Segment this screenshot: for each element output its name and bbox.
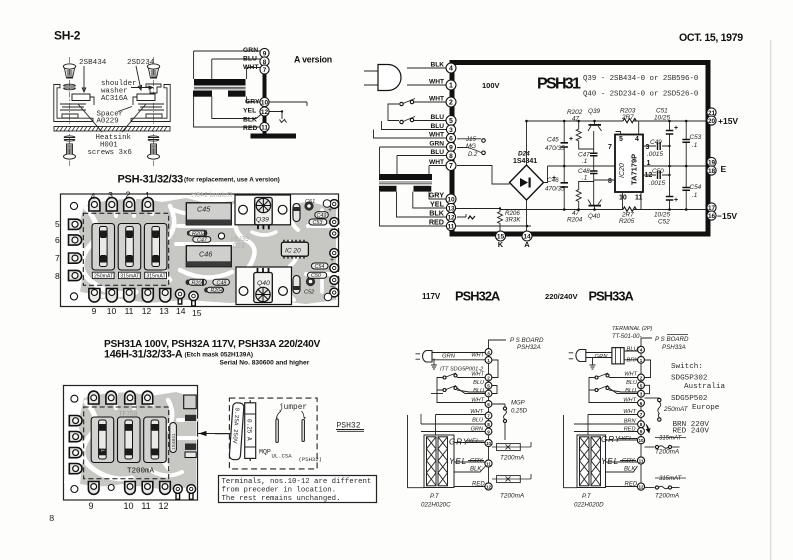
- svg-text:RED: RED: [429, 218, 444, 227]
- svg-text:T200mA: T200mA: [500, 493, 524, 500]
- svg-text:315mAT: 315mAT: [120, 273, 140, 279]
- svg-text:+: +: [552, 175, 556, 182]
- svg-text:4: 4: [635, 136, 639, 143]
- svg-text:6: 6: [640, 401, 643, 406]
- svg-text:8: 8: [608, 178, 612, 185]
- svg-text:P.T: P.T: [430, 493, 440, 500]
- svg-text:C51: C51: [305, 199, 315, 205]
- svg-text:D.2: D.2: [468, 152, 478, 158]
- svg-text:10: 10: [123, 501, 133, 511]
- svg-text:8: 8: [449, 153, 453, 160]
- svg-text:SH-2: SH-2: [54, 29, 81, 43]
- svg-text:BLU: BLU: [430, 123, 444, 130]
- svg-text:7: 7: [608, 144, 612, 151]
- svg-text:Australia: Australia: [684, 383, 725, 391]
- svg-text:11: 11: [261, 125, 268, 132]
- svg-text:146H-31/32/33-A: 146H-31/32/33-A: [104, 349, 183, 361]
- svg-text:K: K: [498, 240, 504, 249]
- svg-text:GRN: GRN: [429, 141, 444, 148]
- svg-text:Europe: Europe: [692, 404, 720, 412]
- svg-text:E: E: [721, 164, 727, 174]
- svg-text:(PSH32): (PSH32): [299, 456, 323, 463]
- svg-text:R202: R202: [192, 231, 205, 237]
- svg-text:6: 6: [487, 402, 490, 407]
- svg-text:Q39 - 2SB434-0 or 2SB596-0: Q39 - 2SB434-0 or 2SB596-0: [583, 75, 698, 83]
- svg-text:IC 20: IC 20: [285, 248, 301, 255]
- svg-text:C53: C53: [690, 134, 702, 141]
- svg-text:470/35: 470/35: [545, 145, 565, 152]
- svg-text:BLU: BLU: [472, 418, 484, 424]
- svg-text:11: 11: [486, 462, 491, 467]
- svg-text:9: 9: [88, 501, 93, 511]
- svg-text:P S BOARD: P S BOARD: [655, 336, 689, 343]
- svg-text:BLU: BLU: [625, 388, 637, 394]
- svg-text:GRN: GRN: [243, 47, 258, 54]
- svg-text:C45: C45: [547, 137, 559, 144]
- svg-text:TERMINAL (2P): TERMINAL (2P): [612, 326, 652, 332]
- svg-text:C49: C49: [650, 139, 662, 146]
- svg-text:R204: R204: [567, 217, 583, 224]
- svg-text:11: 11: [448, 224, 455, 231]
- svg-text:BLK: BLK: [430, 62, 444, 69]
- svg-text:T200mA: T200mA: [127, 468, 155, 476]
- svg-text:315mAT: 315mAT: [659, 436, 683, 442]
- svg-text:jumper: jumper: [279, 404, 307, 412]
- svg-text:C47: C47: [197, 238, 208, 244]
- svg-text:YEL: YEL: [601, 457, 619, 466]
- svg-text:PSH33A: PSH33A: [662, 344, 686, 351]
- svg-text:Switch:: Switch:: [671, 363, 703, 371]
- svg-text:T200mA: T200mA: [500, 455, 524, 462]
- svg-text:10/25: 10/25: [654, 212, 670, 219]
- svg-text:7: 7: [449, 163, 453, 170]
- svg-text:BLU: BLU: [626, 380, 638, 386]
- svg-text:Terminals, nos.10-12 are diffe: Terminals, nos.10-12 are different: [222, 478, 372, 486]
- svg-text:R205: R205: [619, 218, 635, 225]
- svg-text:C53: C53: [313, 220, 323, 226]
- svg-text:.1: .1: [692, 192, 698, 199]
- svg-text:+: +: [569, 136, 573, 143]
- svg-text:7: 7: [55, 253, 60, 263]
- svg-text:1: 1: [640, 358, 643, 363]
- svg-text:+: +: [328, 207, 332, 214]
- svg-text:12: 12: [142, 306, 152, 316]
- svg-text:3: 3: [640, 392, 643, 397]
- svg-text:3: 3: [487, 392, 490, 397]
- svg-text:(for replacement, use A versio: (for replacement, use A version): [184, 177, 280, 184]
- svg-text:.1: .1: [582, 175, 588, 182]
- svg-text:+15V: +15V: [718, 116, 738, 126]
- svg-text:WHT: WHT: [429, 79, 444, 86]
- svg-text:BLU: BLU: [430, 149, 444, 156]
- svg-text:RED 240V: RED 240V: [673, 428, 710, 436]
- svg-text:10: 10: [486, 441, 492, 446]
- svg-text:1: 1: [647, 160, 651, 167]
- svg-text:8: 8: [640, 422, 643, 427]
- svg-text:−15V: −15V: [717, 211, 737, 221]
- svg-text:12: 12: [486, 485, 492, 490]
- svg-text:YEL: YEL: [430, 200, 445, 209]
- svg-text:RED: RED: [243, 125, 257, 132]
- svg-text:1S4841: 1S4841: [171, 433, 177, 450]
- svg-text:Q40 - 2SD234-0 or 2SD526-0: Q40 - 2SD234-0 or 2SD526-0: [583, 91, 698, 99]
- svg-text:7: 7: [263, 67, 267, 74]
- svg-text:IC20: IC20: [619, 163, 626, 178]
- svg-text:5: 5: [619, 136, 623, 143]
- svg-text:P S BOARD: P S BOARD: [510, 337, 544, 344]
- svg-text:5: 5: [487, 384, 490, 389]
- svg-text:T200mA: T200mA: [655, 493, 679, 500]
- svg-text:WHT: WHT: [429, 96, 444, 103]
- svg-text:4: 4: [449, 66, 453, 73]
- svg-text:100V: 100V: [482, 81, 500, 90]
- svg-text:WHT: WHT: [471, 372, 484, 378]
- svg-text:.1: .1: [692, 142, 698, 149]
- svg-text:SDG5P502: SDG5P502: [671, 395, 708, 403]
- svg-text:9: 9: [92, 306, 97, 316]
- svg-text:12: 12: [447, 215, 455, 222]
- svg-text:T200mA: T200mA: [101, 434, 106, 452]
- svg-text:GRY: GRY: [622, 459, 636, 465]
- svg-text:C52: C52: [304, 290, 315, 296]
- svg-text:2: 2: [640, 376, 643, 381]
- svg-text:D24: D24: [518, 151, 530, 158]
- svg-text:GRN: GRN: [442, 354, 456, 360]
- svg-text:Q40: Q40: [257, 280, 270, 287]
- svg-text:GRY: GRY: [470, 459, 484, 465]
- svg-text:11: 11: [141, 501, 150, 511]
- svg-text:14: 14: [176, 306, 186, 316]
- svg-text:WHT: WHT: [624, 372, 637, 378]
- svg-text:315mAT: 315mAT: [146, 273, 166, 279]
- svg-text:YEL: YEL: [468, 439, 479, 445]
- svg-text:1: 1: [487, 358, 490, 363]
- svg-text:+: +: [674, 125, 678, 132]
- svg-text:PSH32A: PSH32A: [517, 344, 541, 351]
- svg-text:6: 6: [449, 136, 453, 143]
- svg-text:4: 4: [640, 348, 643, 353]
- svg-text:A version: A version: [294, 55, 332, 65]
- svg-text:9: 9: [640, 429, 643, 434]
- svg-text:T200mA: T200mA: [655, 449, 679, 456]
- svg-text:C54: C54: [315, 264, 325, 270]
- svg-text:2: 2: [487, 376, 490, 381]
- svg-text:7: 7: [487, 414, 490, 419]
- svg-text:+: +: [330, 257, 334, 264]
- svg-text:AC316A: AC316A: [101, 95, 128, 103]
- svg-text:.1: .1: [582, 158, 588, 165]
- svg-text:4: 4: [91, 191, 96, 201]
- svg-text:3R3K: 3R3K: [505, 217, 521, 224]
- svg-text:3: 3: [646, 144, 650, 151]
- svg-text:022H020D: 022H020D: [574, 502, 604, 509]
- svg-text:WHT: WHT: [623, 398, 636, 404]
- svg-text:C50: C50: [311, 273, 321, 279]
- svg-text:BLU: BLU: [473, 380, 485, 386]
- svg-text:PSH31: PSH31: [537, 76, 581, 93]
- svg-text:3: 3: [108, 190, 113, 200]
- svg-text:6: 6: [55, 235, 60, 245]
- svg-text:20: 20: [708, 118, 716, 125]
- svg-text:+: +: [674, 197, 678, 204]
- svg-text:SDG5P302: SDG5P302: [671, 375, 708, 383]
- svg-text:YEL: YEL: [243, 108, 256, 115]
- svg-text:MQP: MQP: [259, 449, 271, 456]
- svg-text:TA7179P: TA7179P: [630, 154, 639, 185]
- svg-text:UL.CSA: UL.CSA: [272, 453, 293, 460]
- svg-text:BLU: BLU: [430, 114, 444, 121]
- svg-text:7: 7: [640, 412, 643, 417]
- svg-text:(Etch mask 052H139A): (Etch mask 052H139A): [185, 352, 254, 359]
- svg-text:Q39: Q39: [256, 217, 269, 224]
- svg-text:C54: C54: [690, 184, 702, 191]
- svg-text:YEL: YEL: [621, 437, 632, 443]
- svg-text:12: 12: [261, 109, 269, 116]
- svg-text:5: 5: [449, 118, 453, 125]
- svg-text:BLU: BLU: [627, 347, 639, 353]
- svg-text:2R7: 2R7: [621, 114, 634, 121]
- svg-text:P.T: P.T: [582, 493, 592, 500]
- svg-text:10: 10: [261, 100, 269, 107]
- svg-text:GRY: GRY: [449, 438, 469, 447]
- svg-text:13: 13: [447, 206, 455, 213]
- svg-text:1S4841: 1S4841: [513, 158, 537, 165]
- svg-text:−: −: [330, 282, 335, 291]
- svg-text:HU39: HU39: [231, 236, 249, 243]
- svg-text:GRN: GRN: [595, 354, 609, 360]
- svg-text:1: 1: [449, 83, 453, 90]
- svg-text:.0015: .0015: [647, 151, 663, 158]
- svg-text:5: 5: [55, 219, 60, 229]
- svg-text:BLU: BLU: [473, 388, 485, 394]
- svg-text:9: 9: [487, 430, 490, 435]
- svg-text:MGP: MGP: [511, 401, 525, 407]
- svg-text:0,25D: 0,25D: [511, 409, 528, 415]
- svg-text:11: 11: [639, 459, 644, 464]
- svg-text:.0015: .0015: [649, 180, 665, 187]
- svg-text:GRY: GRY: [601, 435, 621, 444]
- svg-text:YEL: YEL: [449, 457, 467, 466]
- svg-text:PSH-31/32/33: PSH-31/32/33: [118, 174, 184, 186]
- svg-text:WHT: WHT: [471, 398, 484, 404]
- svg-text:TT-501-00-: TT-501-00-: [612, 334, 641, 340]
- svg-text:10: 10: [107, 306, 117, 316]
- svg-text:C52: C52: [658, 219, 670, 226]
- svg-text:BLK: BLK: [243, 117, 257, 124]
- svg-text:J15: J15: [465, 136, 477, 143]
- svg-text:022H020C: 022H020C: [421, 502, 451, 509]
- svg-text:13: 13: [159, 306, 169, 316]
- svg-text:1: 1: [145, 190, 150, 200]
- svg-text:Roland 146H: Roland 146H: [191, 192, 232, 199]
- svg-text:12: 12: [158, 501, 168, 511]
- svg-text:2: 2: [126, 190, 131, 200]
- svg-text:023: 023: [233, 243, 245, 250]
- svg-text:WHT: WHT: [429, 132, 444, 139]
- svg-text:2SB434: 2SB434: [79, 59, 107, 67]
- svg-text:WHT: WHT: [471, 353, 484, 359]
- svg-text:2: 2: [449, 100, 453, 107]
- svg-text:Q40: Q40: [588, 213, 601, 220]
- svg-text:WHT: WHT: [429, 159, 444, 166]
- svg-text:8: 8: [487, 422, 490, 427]
- svg-text:12: 12: [638, 485, 644, 490]
- svg-text:250mAT: 250mAT: [94, 273, 114, 279]
- svg-text:5: 5: [640, 383, 643, 388]
- svg-text:10: 10: [447, 197, 455, 204]
- svg-text:C45: C45: [197, 205, 211, 214]
- svg-text:from preceder in location.: from preceder in location.: [222, 487, 337, 495]
- svg-text:10: 10: [638, 438, 644, 443]
- svg-text:250mAT: 250mAT: [663, 406, 689, 413]
- svg-text:0.25 A: 0.25 A: [245, 419, 252, 441]
- svg-text:18: 18: [708, 168, 716, 175]
- svg-text:8: 8: [55, 271, 60, 281]
- svg-text:BLK: BLK: [429, 209, 445, 218]
- svg-text:C46: C46: [199, 250, 212, 259]
- svg-text:A0229: A0229: [97, 118, 119, 126]
- svg-text:The rest remains unchanged.: The rest remains unchanged.: [222, 495, 341, 503]
- svg-text:OCT. 15, 1979: OCT. 15, 1979: [679, 32, 743, 44]
- svg-text:screws 3x6: screws 3x6: [88, 149, 132, 157]
- svg-text:PSH33A: PSH33A: [589, 289, 634, 304]
- svg-text:C50: C50: [652, 168, 664, 175]
- svg-text:GRY: GRY: [429, 191, 445, 200]
- svg-text:A: A: [524, 240, 530, 249]
- svg-text:4: 4: [487, 350, 490, 355]
- svg-text:117V: 117V: [422, 292, 441, 301]
- svg-text:C48: C48: [217, 280, 227, 286]
- svg-text:Q39: Q39: [588, 108, 601, 115]
- svg-text:15: 15: [192, 308, 202, 318]
- svg-text:R206: R206: [192, 280, 205, 286]
- svg-text:C49: C49: [317, 213, 327, 219]
- svg-text:C51: C51: [656, 108, 668, 115]
- svg-text:PSH32A: PSH32A: [455, 289, 500, 304]
- svg-text:8: 8: [49, 514, 54, 524]
- svg-text:11: 11: [125, 306, 134, 316]
- svg-text:Serial No. 830600 and higher: Serial No. 830600 and higher: [220, 360, 310, 367]
- svg-text:470/35: 470/35: [545, 186, 565, 193]
- svg-text:R204: R204: [211, 288, 224, 294]
- svg-text:10/25: 10/25: [654, 115, 670, 122]
- svg-text:16: 16: [708, 213, 716, 220]
- svg-text:220/240V: 220/240V: [545, 292, 578, 301]
